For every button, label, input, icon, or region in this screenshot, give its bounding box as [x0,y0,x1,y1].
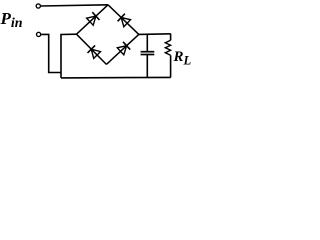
wire from bottom terminal down to bottom junction [41,34,61,72]
resistor R_L top lead [170,34,172,41]
diode D3 (bottom-left arm) triangle [91,49,100,58]
diode D1 (top-left arm) cathode bar [92,12,99,20]
capacitor C bottom plate [141,54,155,56]
diode D3 (bottom-left arm) cathode bar [88,45,96,53]
bridge diamond: top-right side wire [108,5,139,35]
diode D1 (top-left arm) triangle [87,16,96,25]
input terminal (bottom) [37,32,41,36]
capacitor C top lead [146,34,148,51]
bridge diamond: bottom-left side wire [77,34,107,64]
bridge diamond: bottom-right side wire [106,34,138,64]
bridge diamond: top-left side wire [77,5,109,34]
diode D2 (top-right arm) triangle [121,18,130,27]
wire from top terminal to bridge top node [41,5,108,6]
bottom rail wire [61,76,171,79]
diode D4 (bottom-right arm) triangle [117,46,126,55]
diode D4 (bottom-right arm) cathode bar [123,42,130,50]
capacitor C top plate [141,51,155,53]
input terminal (top) [36,4,40,8]
wire from bridge right node to load [139,33,171,36]
resistor R_L zigzag body [165,40,170,55]
wire from bridge left node down to bottom rail [61,34,77,78]
diode D2 (top-right arm) cathode bar [118,14,125,22]
capacitor C bottom lead [146,55,148,78]
resistor R_L bottom lead [170,55,172,77]
